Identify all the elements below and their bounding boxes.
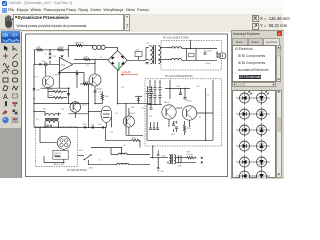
svg-text:T40: T40 — [61, 109, 64, 111]
svg-text:C4k: C4k — [98, 92, 101, 94]
svg-text:R7: R7 — [199, 117, 201, 119]
svg-text:C4B0: C4B0 — [89, 167, 93, 169]
svg-text:C4H: C4H — [90, 124, 94, 126]
svg-text:PAN Pow SW: PAN Pow SW — [54, 163, 65, 166]
svg-text:C41: C41 — [123, 145, 126, 147]
svg-text:BD140: BD140 — [97, 88, 103, 90]
svg-text:30GB: 30GB — [85, 81, 91, 83]
svg-text:CRH R20: CRH R20 — [54, 153, 61, 155]
svg-text:BD903: BD903 — [129, 113, 135, 115]
svg-text:TR102: TR102 — [164, 102, 171, 104]
svg-text:TIP 3 T: TIP 3 T — [33, 77, 40, 79]
svg-text:C9: C9 — [207, 95, 209, 97]
svg-text:L4: L4 — [98, 160, 100, 162]
svg-text:TIC31: TIC31 — [82, 104, 88, 106]
svg-text:R21: R21 — [149, 116, 152, 118]
svg-text:R30: R30 — [61, 47, 64, 49]
svg-text:R120: R120 — [187, 128, 191, 130]
svg-text:D1: D1 — [100, 57, 102, 59]
svg-text:SW1: SW1 — [79, 150, 83, 152]
svg-text:50 Hz: 50 Hz — [206, 63, 211, 65]
svg-text:TR7: TR7 — [146, 43, 150, 45]
svg-text:C20: C20 — [121, 87, 124, 89]
svg-text:D40: D40 — [36, 90, 39, 92]
svg-text:R19: R19 — [115, 113, 118, 115]
svg-text:TR401: TR401 — [186, 100, 193, 102]
svg-text:C4H: C4H — [105, 96, 109, 98]
svg-text:C30: C30 — [158, 82, 161, 84]
svg-text:mcl-LAN: mcl-LAN — [122, 71, 131, 74]
svg-text:C12: C12 — [36, 119, 39, 121]
svg-text:Pow-3B: Pow-3B — [187, 154, 194, 156]
svg-text:B120: B120 — [171, 134, 175, 136]
svg-text:R40: R40 — [49, 89, 52, 91]
svg-text:AC 240V: AC 240V — [204, 49, 212, 52]
svg-text:PC-224 (INTEGRATION): PC-224 (INTEGRATION) — [165, 75, 193, 78]
svg-text:R33: R33 — [43, 109, 46, 111]
svg-text:C30: C30 — [49, 95, 52, 97]
svg-text:PWR Filter: PWR Filter — [75, 42, 85, 45]
svg-text:R7B: R7B — [37, 47, 42, 49]
svg-text:C30: C30 — [110, 132, 113, 134]
svg-text:C7: C7 — [45, 54, 47, 56]
svg-text:PC-226 (LINE FILTER): PC-226 (LINE FILTER) — [163, 37, 189, 40]
svg-text:PC-683 (BYPASS): PC-683 (BYPASS) — [67, 169, 87, 172]
svg-text:R12: R12 — [86, 65, 89, 67]
svg-text:CR0: CR0 — [135, 50, 139, 52]
